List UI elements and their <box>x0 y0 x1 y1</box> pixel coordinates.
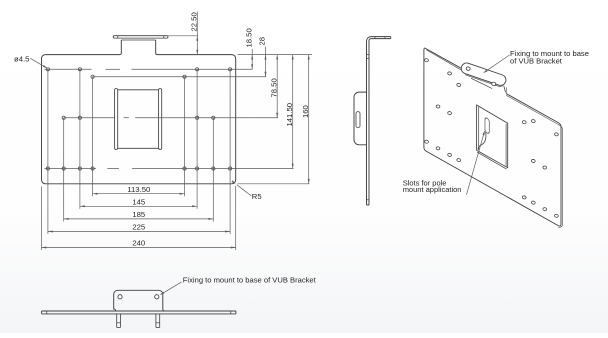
svg-text:185: 185 <box>132 210 145 219</box>
svg-text:of VUB Bracket: of VUB Bracket <box>510 57 563 66</box>
svg-text:Fixing to mount to base of VUB: Fixing to mount to base of VUB Bracket <box>183 276 317 285</box>
svg-text:ø4.5: ø4.5 <box>14 55 29 64</box>
svg-text:78.50: 78.50 <box>269 78 278 97</box>
svg-text:113.50: 113.50 <box>127 185 150 194</box>
svg-text:mount application: mount application <box>403 185 462 194</box>
svg-text:22.50: 22.50 <box>190 12 199 31</box>
svg-text:240: 240 <box>132 239 145 248</box>
svg-text:18.50: 18.50 <box>244 28 253 47</box>
svg-text:225: 225 <box>132 223 145 232</box>
svg-text:141.50: 141.50 <box>285 103 294 127</box>
svg-text:160: 160 <box>301 105 310 118</box>
svg-text:R5: R5 <box>252 192 262 201</box>
svg-text:28: 28 <box>258 37 267 46</box>
svg-text:145: 145 <box>132 198 145 207</box>
